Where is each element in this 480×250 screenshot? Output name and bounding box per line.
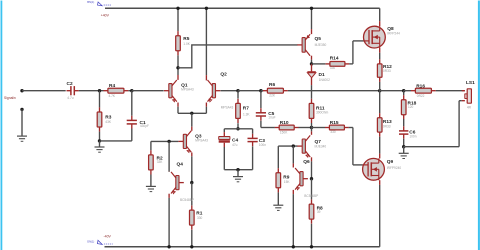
svg-text:-40V: -40V xyxy=(104,235,112,239)
svg-text:330: 330 xyxy=(330,130,336,134)
svg-text:R7: R7 xyxy=(243,105,249,111)
svg-text:D1: D1 xyxy=(319,72,325,78)
svg-text:22K: 22K xyxy=(269,93,276,97)
svg-text:39: 39 xyxy=(317,210,321,214)
svg-text:43K: 43K xyxy=(105,120,112,124)
svg-text:BC548BP: BC548BP xyxy=(180,198,194,202)
svg-text:Q2: Q2 xyxy=(220,72,227,78)
svg-text:0R33: 0R33 xyxy=(383,125,391,129)
svg-text:Q5: Q5 xyxy=(315,36,322,42)
svg-text:0R33: 0R33 xyxy=(383,69,391,73)
svg-text:Signalin: Signalin xyxy=(4,96,16,100)
svg-text:330: 330 xyxy=(197,216,203,220)
svg-text:MJE350: MJE350 xyxy=(315,43,327,47)
svg-text:4.7u: 4.7u xyxy=(67,96,73,100)
svg-text:47u: 47u xyxy=(232,143,238,147)
svg-text:R15: R15 xyxy=(330,120,339,126)
svg-text:GN(1): GN(1) xyxy=(87,239,94,243)
svg-text:Q6: Q6 xyxy=(303,159,310,165)
svg-text:MPSA43: MPSA43 xyxy=(195,138,208,142)
svg-text:150K: 150K xyxy=(280,131,288,135)
svg-text:15K: 15K xyxy=(284,180,291,184)
svg-text:R14: R14 xyxy=(330,56,339,62)
svg-text:0R22: 0R22 xyxy=(417,94,425,98)
svg-text:Q4: Q4 xyxy=(177,162,184,168)
svg-text:R6: R6 xyxy=(269,82,275,88)
svg-text:120: 120 xyxy=(408,105,414,109)
svg-text:MJE340: MJE340 xyxy=(315,144,327,148)
svg-text:R16: R16 xyxy=(416,83,425,89)
svg-text:1.0K: 1.0K xyxy=(183,42,190,46)
svg-text:330: 330 xyxy=(330,66,336,70)
svg-text:BC546BP: BC546BP xyxy=(304,194,318,198)
svg-text:4R: 4R xyxy=(467,105,472,109)
svg-text:33K: 33K xyxy=(157,160,164,164)
svg-text:1N4002: 1N4002 xyxy=(319,78,330,82)
svg-text:4.7K: 4.7K xyxy=(109,94,116,98)
svg-text:R4: R4 xyxy=(109,83,115,89)
svg-text:10uF: 10uF xyxy=(268,115,275,119)
svg-text:MPSA43: MPSA43 xyxy=(181,87,194,91)
svg-text:IRFP9240: IRFP9240 xyxy=(387,166,402,170)
svg-text:Q9: Q9 xyxy=(387,159,394,165)
svg-text:LS1: LS1 xyxy=(466,80,475,86)
svg-text:430pF: 430pF xyxy=(140,124,149,128)
svg-text:R5: R5 xyxy=(183,36,189,42)
svg-text:MPSA43: MPSA43 xyxy=(221,106,234,110)
svg-text:R10: R10 xyxy=(280,120,289,126)
svg-text:IRFP244: IRFP244 xyxy=(387,31,400,35)
svg-text:BN(1): BN(1) xyxy=(87,0,94,4)
svg-text:1.3K: 1.3K xyxy=(243,112,250,116)
svg-text:390Ohm: 390Ohm xyxy=(316,111,329,115)
svg-text:C2: C2 xyxy=(67,81,73,87)
svg-text:100n: 100n xyxy=(259,143,266,147)
svg-text:+40V: +40V xyxy=(101,14,110,18)
svg-text:100n: 100n xyxy=(409,135,416,139)
